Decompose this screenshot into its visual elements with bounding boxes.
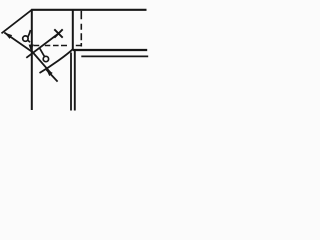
right vertical lower outer <box>74 49 76 110</box>
label a stem and tail <box>28 30 31 42</box>
right vertical lower inner <box>70 53 72 111</box>
corner joint technical drawing <box>0 0 151 120</box>
right vertical upper <box>72 10 74 50</box>
top horizontal plate surface H1 <box>31 9 146 11</box>
arrowhead b at crossing <box>46 69 53 76</box>
label a bowl <box>23 36 28 41</box>
dimension line b <box>32 51 52 74</box>
45 deg extension line L1 from outer corner <box>2 10 32 34</box>
leader line through junction to x marker <box>26 34 58 58</box>
dashed horizontal hidden line (explicit dashes) <box>33 45 81 47</box>
dashed vertical hidden line (explicit dashes) <box>80 11 82 47</box>
arrow shaft at b/L2 crossing <box>46 70 57 82</box>
arrowhead a top <box>4 33 12 39</box>
label b bowl <box>43 56 48 61</box>
lower horizontal line B <box>81 55 148 57</box>
left vertical line <box>31 9 33 110</box>
middle horizontal line A <box>73 49 147 51</box>
x cross marker <box>54 29 62 37</box>
45 deg extension line L2 from inner corner <box>40 49 73 73</box>
label b stem <box>40 48 45 56</box>
arrowhead a bottom at junction <box>29 44 34 51</box>
dimension line a <box>4 33 31 52</box>
